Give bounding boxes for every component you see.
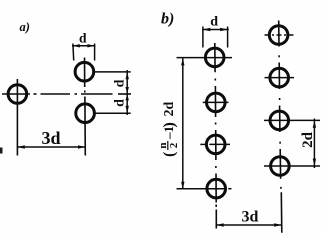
vertical centerline through A2 (84, 58, 86, 88)
centerline dot between A2 and A3 (84, 91, 86, 93)
extension of B4 centerline to 3d dim (215, 210, 217, 229)
arrow middle pair (126, 87, 129, 94)
svg-text:d: d (113, 79, 128, 87)
svg-text:d: d (210, 15, 218, 30)
arrow right of 3d (78, 145, 85, 148)
chain dimension d,d (fig a right): extension from A3 (96, 112, 131, 114)
chain dimension d,d (fig a right): dimension line (126, 70, 128, 115)
B1 horizontal crosshair / extension to left chain dim (177, 57, 233, 59)
arrow left (216, 223, 223, 226)
hole A2 (top right circle, fig a) (75, 62, 94, 81)
hole B3 (206, 135, 225, 154)
dash through B3 (215, 130, 217, 160)
centerline dot B6-B7 (279, 98, 281, 100)
svg-text:3d: 3d (41, 128, 60, 148)
svg-text:a): a) (20, 20, 30, 34)
formula label (n/2-1)2d rotated (157, 102, 180, 158)
hole B1 (205, 48, 224, 67)
svg-text:b): b) (161, 11, 174, 28)
B3 horizontal crosshair (200, 143, 206, 145)
hole A3 (bottom right circle, fig a) (76, 104, 95, 123)
B2 horizontal crosshair (203, 101, 229, 103)
centerline dot B1-B2 (214, 79, 216, 81)
arrow right of d dim (87, 44, 94, 47)
vertical centerline through A3 / extension for 3d dim (84, 97, 86, 156)
dash through B8 (279, 149, 281, 179)
svg-text:): ) (161, 122, 178, 127)
arrow right (220, 28, 227, 31)
extension of B8 centerline to 3d dim (280, 192, 283, 233)
hole A1 (left circle, fig a) (8, 85, 27, 104)
ink smudge left edge (0, 148, 3, 154)
dash through B7 (279, 106, 281, 133)
arrow left of 3d (17, 145, 24, 148)
centerline dot below B8 (280, 187, 282, 189)
dash through B4 (215, 174, 217, 203)
dimension 3d (fig b): dimension line (216, 224, 283, 226)
svg-text:2d: 2d (300, 131, 316, 148)
hole B7 (270, 111, 289, 130)
centerline dot B2-B3 (215, 123, 217, 125)
svg-text:2d: 2d (162, 102, 177, 117)
hole B8 (271, 157, 290, 176)
arrow top (up) (181, 58, 184, 65)
B7 horizontal crosshair / extension for 2d (264, 119, 320, 121)
B4 horizontal crosshair / extension to left chain dim (177, 188, 226, 190)
dimension d (fig b top): extension right (227, 27, 229, 48)
hole B2 (207, 93, 226, 112)
arrow top (up) (126, 72, 129, 79)
dimension d (fig a top): dimension line (72, 45, 95, 47)
arrow bottom (down) (313, 159, 316, 166)
svg-text:3d: 3d (242, 209, 259, 226)
dimension 3d (fig a): dimension line (17, 146, 86, 148)
svg-text:(: ( (161, 152, 178, 157)
hole B6 (270, 68, 289, 87)
centerline dot B3-B4 (215, 166, 217, 168)
left column centerline (fig b): dash through B1 (214, 43, 216, 72)
dash through B2 (214, 86, 216, 117)
dash through B6 (278, 63, 280, 90)
B5 horizontal crosshair (265, 34, 295, 36)
left chain dimension (fig b): dimension line (182, 58, 184, 189)
dimension d (fig a top): extension line right (94, 44, 96, 61)
B8 horizontal crosshair / extension for 2d (264, 165, 320, 167)
chain dimension d,d (fig a right): extension from A2 (95, 71, 131, 73)
horizontal dash-dot centerline fig a (2, 93, 131, 95)
centerline dot B5-B6 (278, 55, 280, 57)
dimension d (fig b top): extension left (202, 27, 204, 48)
hole B4 (207, 179, 226, 198)
dimension d (fig b top): dimension line (202, 29, 229, 31)
arrow right (274, 223, 281, 226)
centerline dot below B4 (215, 205, 217, 208)
arrow left (203, 28, 210, 31)
dimension d (fig a top): extension line left (72, 44, 75, 61)
arrow bottom (down) (126, 106, 129, 113)
svg-text:d: d (79, 31, 87, 46)
dimension 2d (fig b right): dimension line (313, 119, 315, 169)
hole B5 (269, 26, 288, 45)
svg-text:d: d (113, 99, 128, 107)
svg-text:2: 2 (168, 142, 180, 148)
arrow bottom (down) (181, 182, 184, 189)
centerline vertical of A1 / extension for 3d dim (16, 79, 18, 156)
right column centerline (fig b): dash through B5 (278, 21, 280, 47)
B6 horizontal crosshair (265, 77, 295, 79)
arrow left of d dim (72, 44, 79, 47)
arrow top (up) (313, 120, 316, 127)
centerline dot B7-B8 (279, 142, 281, 144)
